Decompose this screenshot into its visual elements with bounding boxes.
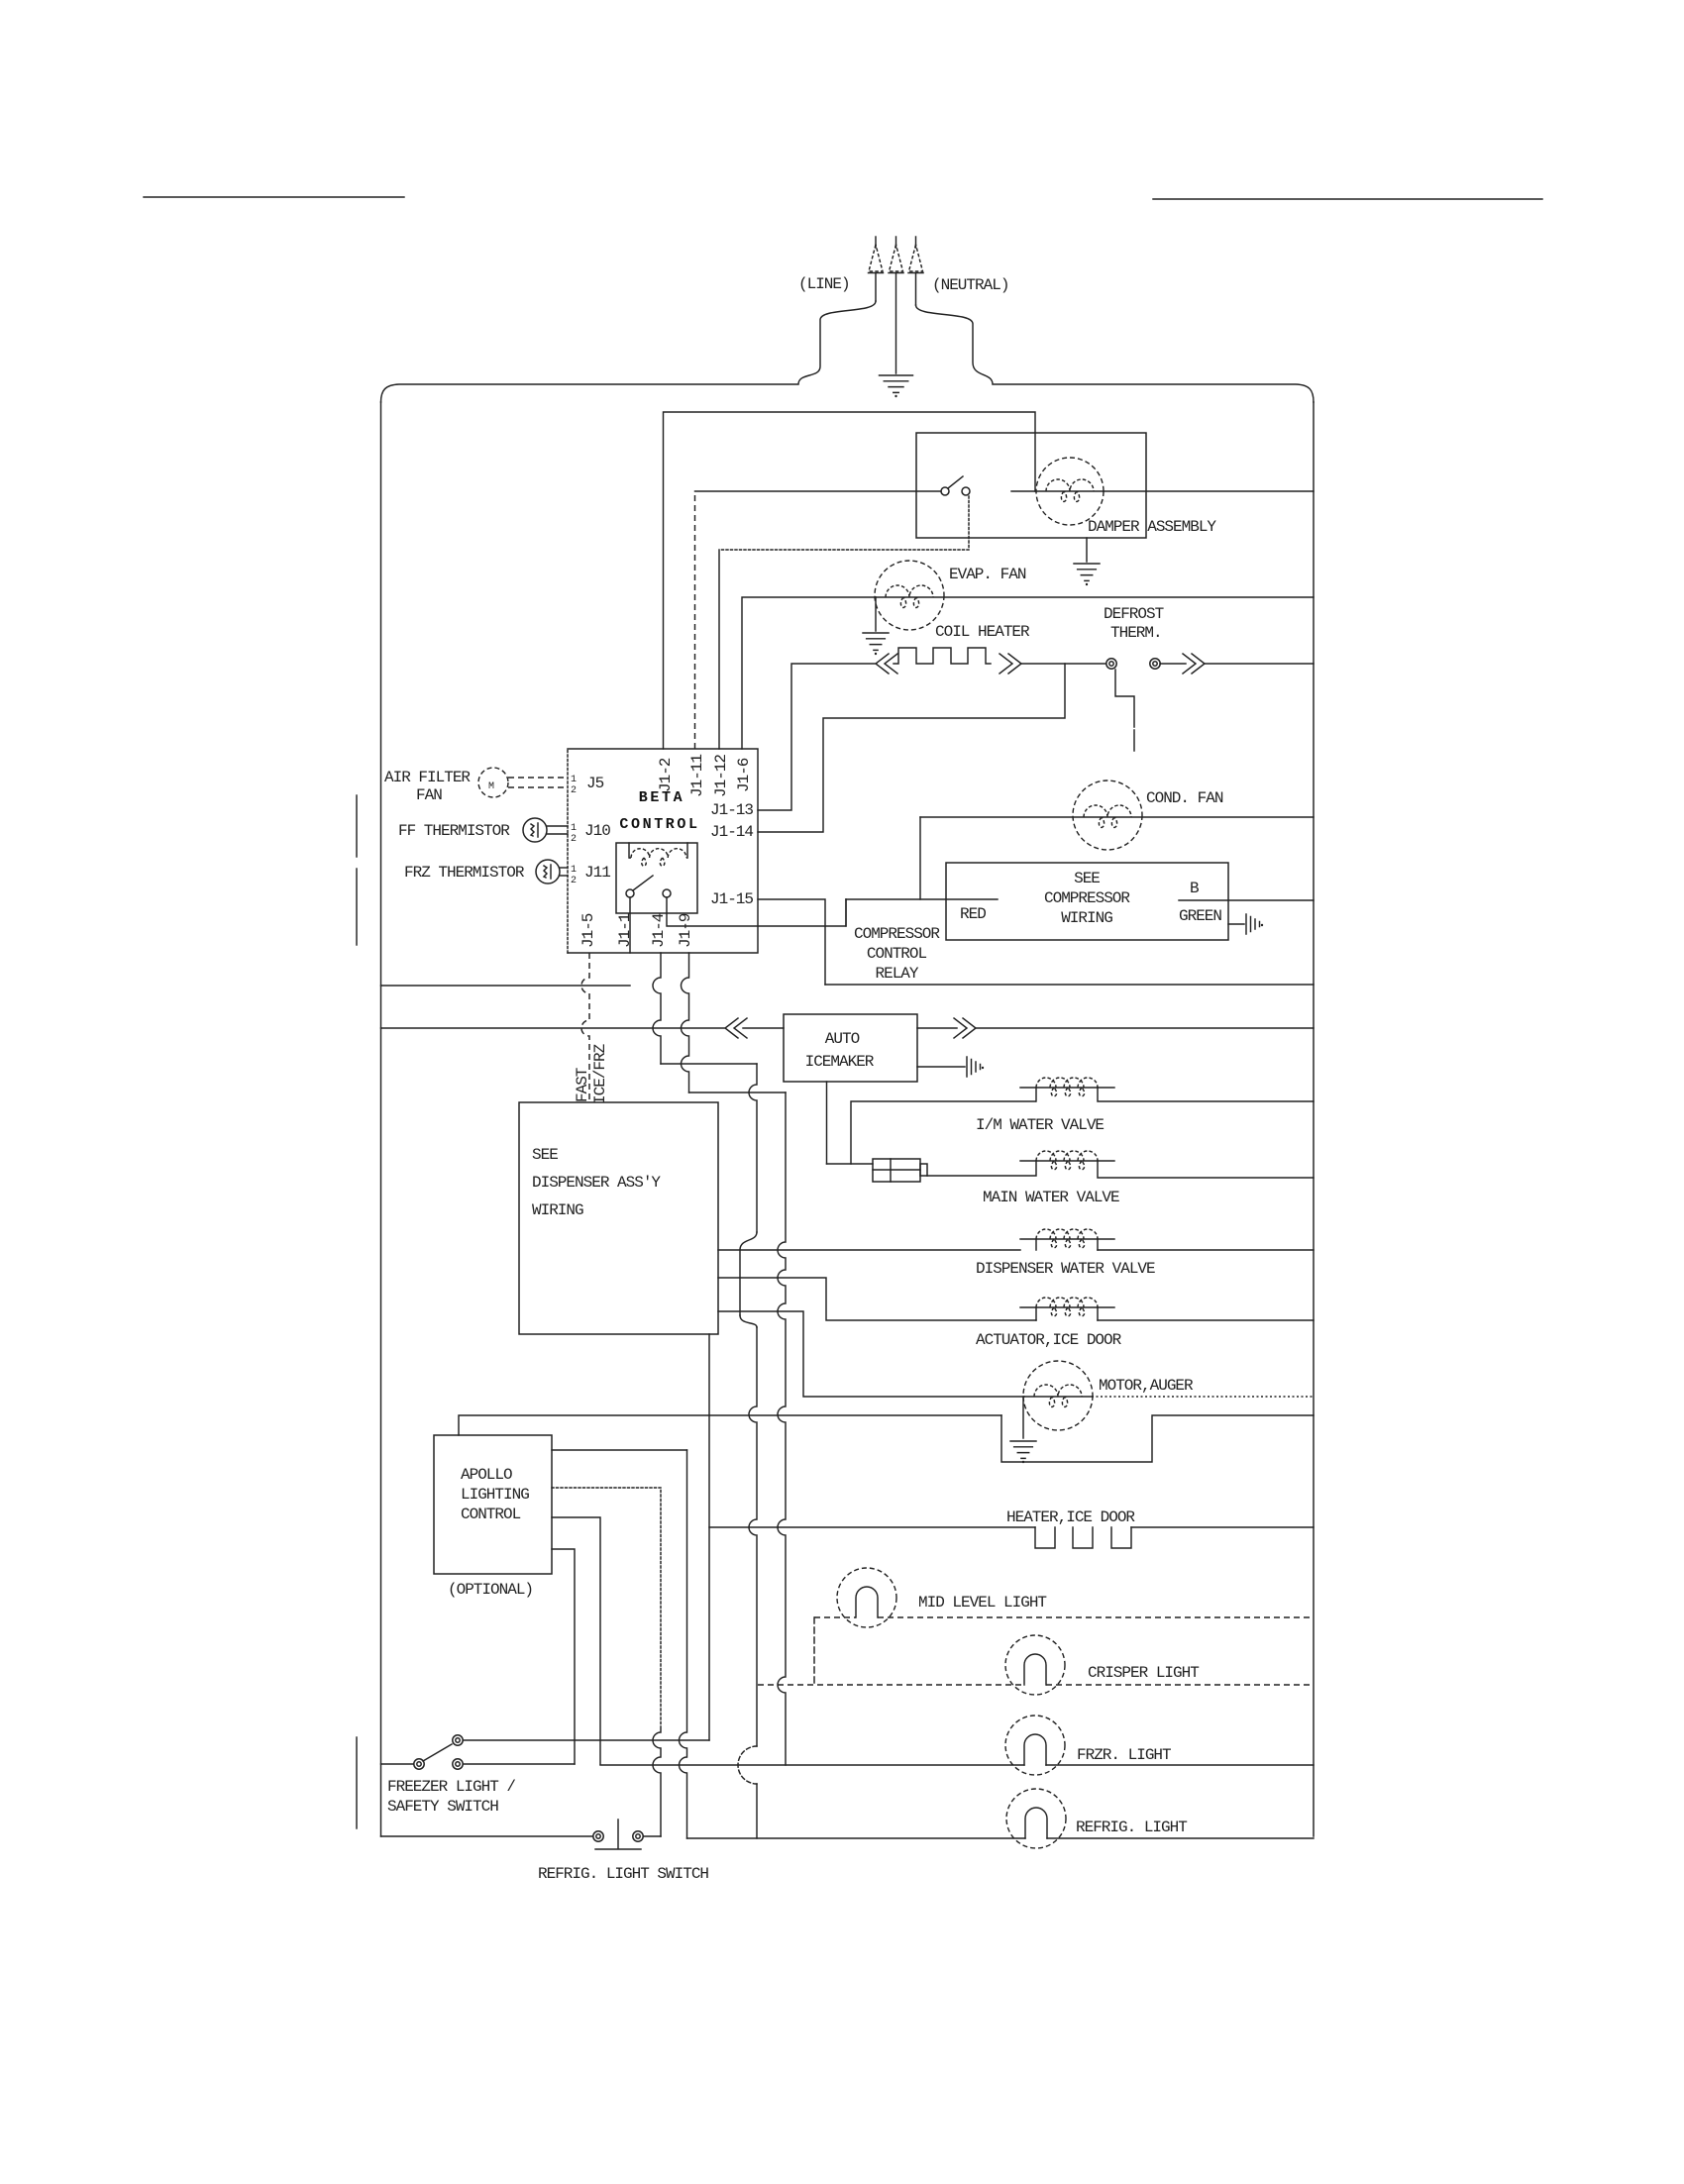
wire relay out to compressor RED	[846, 898, 998, 900]
plug prong ground	[895, 237, 897, 248]
svg-text:FREEZER LIGHT /: FREEZER LIGHT /	[387, 1778, 515, 1796]
control module BETA CONTROL box	[568, 749, 758, 953]
ground symbol evap fan	[863, 633, 889, 650]
ground symbol icemaker	[967, 1057, 981, 1077]
motor air filter fan	[478, 768, 508, 797]
svg-text:ACTUATOR,ICE DOOR: ACTUATOR,ICE DOOR	[976, 1331, 1122, 1349]
ground symbol compressor	[1246, 914, 1260, 934]
svg-text:REFRIG. LIGHT: REFRIG. LIGHT	[1076, 1819, 1187, 1836]
wire refrig row right	[1047, 1837, 1314, 1839]
header rule right	[1153, 198, 1542, 200]
wire J1-12	[718, 550, 720, 749]
wire NEUTRAL to right bus	[916, 305, 1315, 402]
svg-text:AUTO: AUTO	[825, 1030, 860, 1048]
thermistor RT2	[536, 860, 560, 884]
right bus wire	[1313, 402, 1315, 1836]
wire safety switch top to dispenser pin	[464, 1739, 709, 1741]
lamp frzr light	[1005, 1716, 1065, 1775]
inline connector	[873, 1159, 920, 1182]
svg-text:EVAP. FAN: EVAP. FAN	[949, 566, 1026, 583]
wire heater row right	[1131, 1526, 1314, 1528]
wire icemaker row to right bus	[976, 1027, 1314, 1029]
svg-text:J1-13: J1-13	[710, 801, 753, 819]
wire apollo pin3 to frzr row	[552, 1517, 600, 1764]
svg-text:J1-1: J1-1	[616, 913, 634, 948]
wire auger motor dotted to right bus	[1092, 1396, 1314, 1398]
solenoid main water valve	[1020, 1160, 1114, 1162]
wire left bus to icemaker	[381, 1027, 725, 1029]
header rule left	[144, 196, 404, 198]
svg-text:SEE: SEE	[532, 1146, 558, 1164]
svg-text:J10: J10	[584, 822, 610, 840]
margin tick upper	[356, 795, 358, 857]
wire icemaker ground	[917, 1066, 965, 1068]
svg-text:CONTROL: CONTROL	[867, 945, 927, 963]
svg-text:J11: J11	[584, 864, 610, 882]
connector arrow left coil heater	[876, 654, 897, 674]
svg-text:FRZ THERMISTOR: FRZ THERMISTOR	[404, 864, 525, 882]
margin tick middle	[356, 869, 358, 945]
svg-text:2: 2	[571, 834, 577, 845]
wire J1-4 jog arc	[740, 1232, 757, 1250]
wire safety switch to apollo pin4	[464, 1763, 575, 1765]
resistor heater ice door	[1035, 1527, 1055, 1548]
svg-text:WIRING: WIRING	[1061, 909, 1112, 927]
svg-text:J1-6: J1-6	[735, 758, 753, 792]
wire J1-11 to damper switch	[694, 491, 696, 749]
wire dispenser valve stubs	[1036, 1239, 1098, 1250]
svg-text:B: B	[1190, 880, 1199, 897]
wire mid level dashed jumper	[813, 1617, 815, 1685]
svg-text:J1-12: J1-12	[712, 755, 730, 797]
wire left bus to safety switch	[381, 1763, 414, 1765]
wire FF thermistor to J10	[547, 825, 568, 827]
connector arrow right icemaker	[954, 1018, 976, 1038]
svg-text:COMPRESSOR: COMPRESSOR	[1044, 889, 1130, 907]
svg-text:COMPRESSOR: COMPRESSOR	[854, 925, 940, 943]
wire mid level row dashed	[878, 1616, 1314, 1618]
svg-text:2: 2	[571, 876, 577, 886]
svg-text:MOTOR,AUGER: MOTOR,AUGER	[1099, 1377, 1194, 1395]
wire J1-4 down3	[749, 1327, 757, 1746]
wire I/M valve left stub	[1035, 1088, 1037, 1101]
wire cond fan row	[920, 816, 1314, 818]
wire dispenser pin to heater	[708, 1334, 710, 1740]
connector arrow right coil heater	[1000, 654, 1021, 674]
thermistor RT1	[523, 818, 547, 842]
svg-text:DISPENSER WATER VALVE: DISPENSER WATER VALVE	[976, 1260, 1155, 1278]
wire frzr row right	[1046, 1764, 1314, 1766]
lamp refrig light	[1006, 1789, 1066, 1848]
wire crisper row dashed left	[758, 1684, 1024, 1686]
ground wire evap fan	[875, 597, 877, 631]
wire refrig row	[687, 1837, 1026, 1839]
wire damper motor to right bus	[1104, 490, 1314, 492]
wire heater row left	[709, 1526, 1035, 1528]
svg-text:1: 1	[571, 865, 577, 876]
svg-text:DISPENSER ASS'Y: DISPENSER ASS'Y	[532, 1174, 661, 1192]
wire J1-4 down2	[739, 1250, 741, 1315]
svg-text:LIGHTING: LIGHTING	[461, 1486, 529, 1504]
left bus wire	[380, 402, 382, 1836]
svg-text:COIL HEATER: COIL HEATER	[935, 623, 1030, 641]
wire left bus bottom to refrig switch	[381, 1835, 593, 1837]
wire J1-4 down	[653, 953, 661, 1064]
svg-text:J1-15: J1-15	[710, 890, 753, 908]
svg-text:WIRING: WIRING	[532, 1201, 583, 1219]
wire coil heater to defrost	[1021, 663, 1105, 665]
wire icemaker pin to connector	[827, 1163, 874, 1165]
wire auger row under coil	[1024, 1396, 1092, 1398]
ground symbol damper	[1074, 564, 1100, 580]
svg-text:FAST: FAST	[574, 1068, 591, 1102]
svg-text:DAMPER ASSEMBLY: DAMPER ASSEMBLY	[1088, 518, 1216, 536]
wire J1-9 jog right	[689, 1092, 787, 1093]
ground symbol auger	[1010, 1441, 1036, 1458]
damper assembly box	[916, 433, 1146, 538]
relay K1 box	[616, 843, 697, 913]
svg-text:THERM.: THERM.	[1110, 624, 1162, 642]
wire I/M valve left route	[851, 1101, 1035, 1164]
svg-text:J1-14: J1-14	[710, 823, 753, 841]
wire actuator right	[1098, 1319, 1314, 1321]
wire dispenser box to actuator	[718, 1278, 1036, 1320]
refrig light switch	[593, 1831, 603, 1841]
wire J1-2 to damper motor	[664, 412, 1036, 749]
svg-text:GREEN: GREEN	[1179, 907, 1221, 925]
wire relay contact out	[667, 897, 846, 926]
connector arrow right defrost	[1183, 654, 1205, 674]
svg-text:CRISPER LIGHT: CRISPER LIGHT	[1088, 1664, 1199, 1682]
margin tick lower	[356, 1737, 358, 1828]
svg-text:MID LEVEL LIGHT: MID LEVEL LIGHT	[918, 1594, 1046, 1612]
svg-text:RELAY: RELAY	[875, 965, 918, 983]
svg-text:1: 1	[571, 823, 577, 834]
wire defrost to arrow	[1160, 663, 1186, 665]
wire auger ground	[1022, 1397, 1024, 1438]
solenoid actuator ice door	[1020, 1306, 1114, 1308]
wire GREEN to right bus	[1179, 899, 1314, 901]
wire evap fan to right bus	[876, 596, 1314, 598]
svg-text:M: M	[488, 781, 494, 792]
wire apollo pin2 dotted to refrig switch	[552, 1488, 661, 1726]
wire actuator stubs	[1036, 1307, 1098, 1320]
wire LINE to left bus	[381, 301, 877, 402]
wire defrost to right bus	[1205, 663, 1314, 665]
wire GREEN to ground	[1228, 923, 1244, 925]
svg-text:I/M WATER VALVE: I/M WATER VALVE	[976, 1116, 1104, 1134]
wire J1-9 down2	[778, 1092, 786, 1765]
evap fan motor M2	[875, 561, 944, 630]
apollo lighting control box	[434, 1435, 552, 1574]
svg-text:(LINE): (LINE)	[798, 275, 850, 293]
wire damper switch sense dotted	[719, 496, 969, 550]
svg-text:HEATER,ICE DOOR: HEATER,ICE DOOR	[1006, 1508, 1135, 1526]
svg-text:COND. FAN: COND. FAN	[1146, 789, 1223, 807]
wire J1-4 jog arc2	[740, 1315, 757, 1327]
plug prong LINE	[875, 237, 877, 248]
wire J1-4 riser2	[749, 1064, 757, 1232]
wire J1-13 to coil heater	[758, 664, 875, 810]
damper switch	[941, 487, 949, 495]
svg-text:J5: J5	[586, 775, 604, 792]
wire J1-4 jog right	[661, 1063, 757, 1065]
svg-text:FF THERMISTOR: FF THERMISTOR	[398, 822, 510, 840]
plug prong NEUTRAL	[915, 237, 917, 248]
defrost thermostat body	[1115, 670, 1134, 727]
svg-text:(OPTIONAL): (OPTIONAL)	[448, 1581, 533, 1599]
wire FRZ thermistor to J11	[560, 867, 568, 869]
defrost thermostat terminals	[1106, 659, 1116, 669]
svg-text:APOLLO: APOLLO	[461, 1466, 512, 1484]
svg-text:RED: RED	[960, 905, 986, 923]
connector arrow left icemaker	[725, 1018, 747, 1038]
svg-text:J1-2: J1-2	[657, 758, 675, 792]
wire J1-15 out	[758, 899, 825, 985]
wire icemaker to arrow	[917, 1027, 957, 1029]
wire connector to main valve	[927, 1161, 1036, 1176]
wire relay contact riser	[845, 899, 847, 926]
wire dispenser box to auger motor	[718, 1311, 1024, 1397]
svg-text:ICEMAKER: ICEMAKER	[805, 1053, 875, 1071]
wire J1-9 down	[682, 953, 689, 1092]
wire icemaker bottom pin	[826, 1082, 828, 1164]
wire damper switch to motor	[1011, 490, 1104, 492]
wire relay row to right bus	[825, 984, 1314, 986]
svg-text:J1-4: J1-4	[650, 913, 668, 948]
wire J1-4 to refrig row	[756, 1784, 758, 1838]
svg-text:SEE: SEE	[1074, 870, 1100, 887]
auger motor M4	[1023, 1361, 1093, 1430]
svg-text:SAFETY SWITCH: SAFETY SWITCH	[387, 1798, 498, 1816]
wire J1-4 big hop over frzr row	[738, 1746, 757, 1784]
cond fan motor M3	[1073, 780, 1142, 850]
see dispenser assy wiring box	[519, 1102, 718, 1334]
wire J1-6 to evap fan	[742, 597, 876, 749]
svg-text:DEFROST: DEFROST	[1104, 605, 1164, 623]
wire arrow to icemaker box	[743, 1027, 784, 1029]
wire refrig switch to apollo pin2	[644, 1835, 661, 1837]
freezer light safety switch	[453, 1735, 463, 1745]
lamp mid level light	[814, 1616, 856, 1618]
lamp crisper light	[1005, 1635, 1065, 1695]
auto icemaker box	[784, 1014, 917, 1082]
solenoid I/M water valve	[1020, 1087, 1114, 1089]
damper motor M1	[1036, 458, 1104, 525]
svg-text:1: 1	[571, 775, 577, 785]
wire apollo top pin to heater row	[459, 1415, 1001, 1435]
svg-text:AIR FILTER: AIR FILTER	[384, 769, 471, 786]
relay coil	[629, 843, 687, 858]
wire frzr row	[600, 1764, 1024, 1766]
ground wire damper	[1086, 538, 1088, 562]
wire main valve right	[1098, 1161, 1314, 1178]
svg-text:FAN: FAN	[416, 786, 442, 804]
svg-text:MAIN WATER VALVE: MAIN WATER VALVE	[983, 1189, 1119, 1206]
ground symbol plug	[880, 375, 913, 392]
wire riser to cond fan	[919, 817, 921, 899]
wire apollo pin4 to safety switch	[552, 1549, 575, 1764]
svg-text:(NEUTRAL): (NEUTRAL)	[932, 276, 1008, 294]
svg-text:FRZR. LIGHT: FRZR. LIGHT	[1077, 1746, 1171, 1764]
wire crisper row dashed right	[1046, 1684, 1314, 1686]
wire relay common to J1-1	[629, 897, 631, 953]
solenoid dispenser water valve	[1020, 1238, 1114, 1240]
wire heater row dip under auger	[1001, 1415, 1314, 1462]
wire left bus to J1-1	[381, 985, 631, 987]
resistor coil heater	[894, 648, 991, 664]
wire J1-5 dashed	[581, 953, 589, 1102]
svg-text:J1-9: J1-9	[677, 913, 694, 948]
svg-text:2: 2	[571, 785, 577, 796]
wire dispenser valve right	[1098, 1249, 1314, 1251]
wire dispenser box to dispenser valve	[718, 1249, 1020, 1251]
svg-text:J1-5: J1-5	[579, 913, 597, 948]
svg-text:ICE/FRZ: ICE/FRZ	[591, 1043, 609, 1104]
svg-text:CONTROL: CONTROL	[461, 1506, 521, 1523]
compressor wiring box	[946, 863, 1228, 940]
relay switch	[626, 889, 634, 897]
svg-text:J1-11: J1-11	[688, 755, 706, 797]
wire air filter fan to J5 pins	[508, 777, 568, 779]
wire apollo pin1 to refrig row	[552, 1449, 687, 1451]
svg-text:CONTROL: CONTROL	[619, 816, 699, 833]
wire I/M valve right	[1098, 1088, 1314, 1101]
wire J1-14 riser	[758, 664, 1065, 832]
svg-text:REFRIG. LIGHT SWITCH: REFRIG. LIGHT SWITCH	[538, 1865, 708, 1883]
